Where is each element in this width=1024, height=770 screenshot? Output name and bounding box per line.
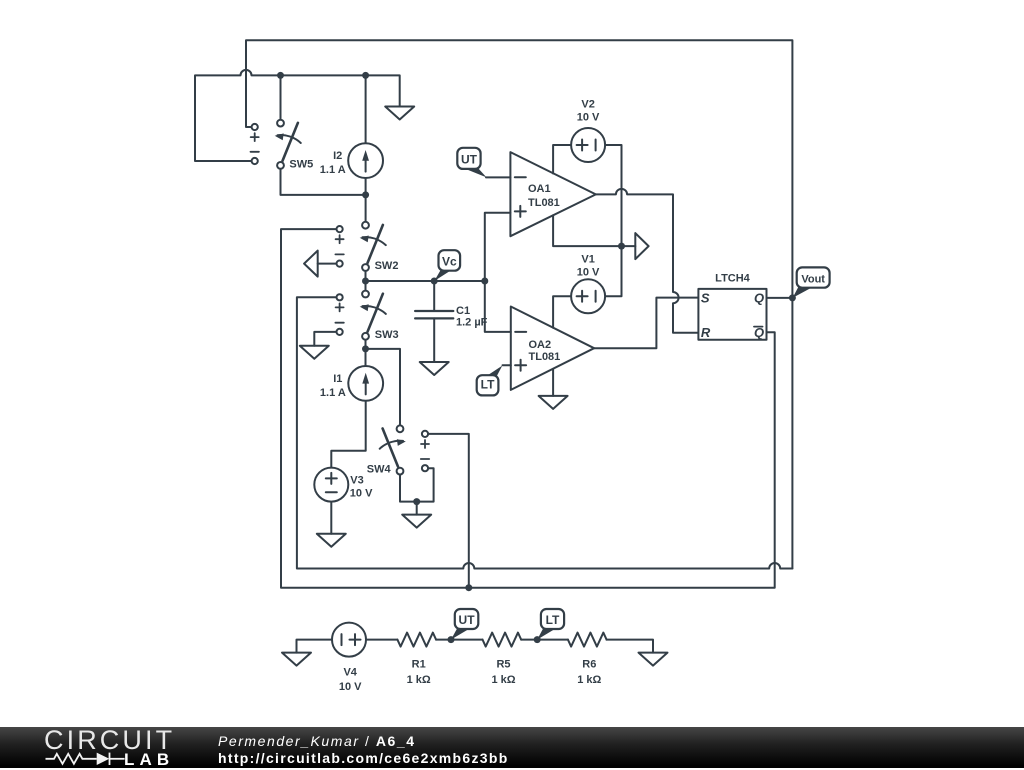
svg-text:S: S xyxy=(701,291,710,306)
svg-text:R5: R5 xyxy=(496,659,510,671)
svg-text:UT: UT xyxy=(461,153,478,167)
svg-text:10 V: 10 V xyxy=(577,112,600,124)
svg-text:R6: R6 xyxy=(582,659,596,671)
svg-text:OA1: OA1 xyxy=(528,183,551,195)
svg-text:R1: R1 xyxy=(412,659,426,671)
svg-text:R: R xyxy=(701,325,711,340)
svg-text:1 kΩ: 1 kΩ xyxy=(491,674,515,686)
svg-text:C1: C1 xyxy=(456,305,470,317)
svg-text:Q: Q xyxy=(754,291,764,306)
svg-text:I2: I2 xyxy=(333,150,342,162)
svg-text:LTCH4: LTCH4 xyxy=(715,273,751,285)
svg-text:OA2: OA2 xyxy=(529,339,552,351)
svg-text:SW4: SW4 xyxy=(367,464,392,476)
svg-text:1 kΩ: 1 kΩ xyxy=(577,674,601,686)
svg-text:10 V: 10 V xyxy=(339,681,362,693)
svg-text:Vc: Vc xyxy=(442,255,457,269)
svg-text:UT: UT xyxy=(459,613,476,627)
svg-text:1 kΩ: 1 kΩ xyxy=(407,674,431,686)
svg-text:SW5: SW5 xyxy=(289,158,313,170)
svg-text:1.2 µF: 1.2 µF xyxy=(456,317,488,329)
svg-text:10 V: 10 V xyxy=(577,266,600,278)
svg-text:SW2: SW2 xyxy=(375,260,399,272)
svg-text:SW3: SW3 xyxy=(375,329,399,341)
svg-text:V3: V3 xyxy=(350,475,363,487)
svg-text:V4: V4 xyxy=(343,667,357,679)
svg-text:V2: V2 xyxy=(581,99,594,111)
svg-text:V1: V1 xyxy=(581,253,594,265)
svg-text:Vout: Vout xyxy=(801,274,825,286)
svg-text:TL081: TL081 xyxy=(529,351,561,363)
svg-text:TL081: TL081 xyxy=(528,197,560,209)
svg-text:1.1 A: 1.1 A xyxy=(320,387,346,399)
svg-text:1.1 A: 1.1 A xyxy=(320,164,346,176)
svg-text:LT: LT xyxy=(546,613,560,627)
svg-text:I1: I1 xyxy=(333,373,342,385)
svg-text:10 V: 10 V xyxy=(350,488,373,500)
svg-text:LT: LT xyxy=(481,378,495,392)
